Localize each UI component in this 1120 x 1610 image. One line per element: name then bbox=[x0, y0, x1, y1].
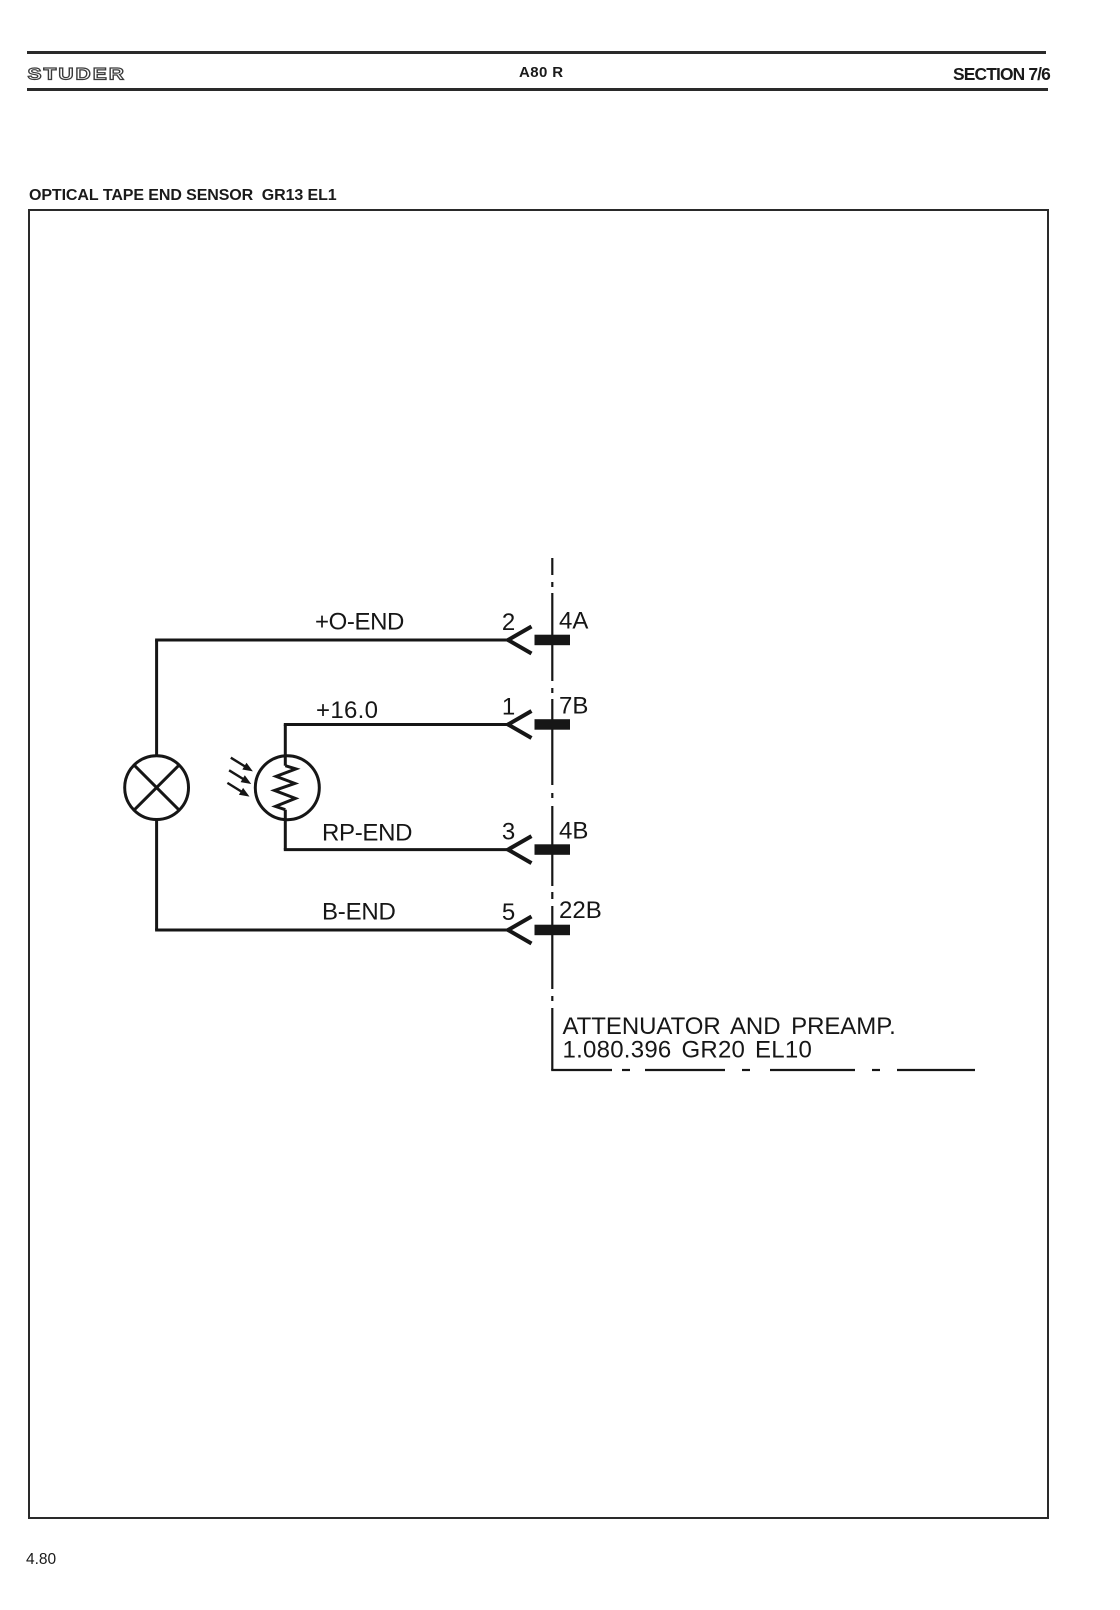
svg-text:7B: 7B bbox=[559, 693, 588, 720]
svg-text:RP-END: RP-END bbox=[322, 820, 412, 847]
svg-text:4A: 4A bbox=[559, 608, 588, 635]
svg-text:+16.0: +16.0 bbox=[316, 697, 378, 724]
svg-text:2: 2 bbox=[502, 609, 515, 636]
svg-text:5: 5 bbox=[502, 899, 515, 926]
svg-text:+O-END: +O-END bbox=[315, 609, 404, 636]
svg-text:4B: 4B bbox=[559, 818, 588, 845]
svg-text:3: 3 bbox=[502, 819, 515, 846]
svg-text:22B: 22B bbox=[559, 897, 602, 924]
svg-text:B-END: B-END bbox=[322, 898, 396, 925]
svg-text:1.080.396 GR20 EL10: 1.080.396 GR20 EL10 bbox=[563, 1037, 813, 1064]
svg-text:1: 1 bbox=[502, 694, 515, 721]
